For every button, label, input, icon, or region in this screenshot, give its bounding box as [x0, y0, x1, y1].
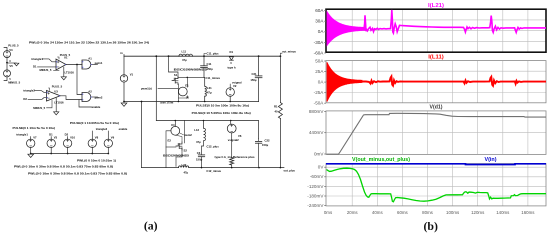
voltage source V6 vsignal2 [230, 121, 232, 125]
svg-text:0V: 0V [318, 165, 325, 170]
wire top rail [124, 55, 280, 57]
svg-text:enable: enable [92, 105, 101, 109]
wire comparator1 to A1 [66, 64, 82, 66]
svg-text:L22: L22 [182, 163, 187, 167]
svg-text:in: in [120, 51, 123, 55]
svg-text:pwm1: pwm1 [95, 61, 103, 65]
voltage source V1 [120, 75, 127, 82]
capacitor C11 [203, 56, 205, 65]
svg-text:150p: 150p [207, 67, 214, 71]
svg-text:D2: D2 [23, 97, 27, 101]
svg-text:LT1016: LT1016 [54, 100, 64, 104]
svg-text:150µ: 150µ [262, 143, 269, 147]
svg-text:LT1016: LT1016 [65, 70, 75, 74]
voltage source V8 [91, 131, 93, 139]
node pwm2 [92, 96, 98, 98]
svg-text:A2: A2 [88, 90, 92, 94]
svg-text:D1: D1 [230, 50, 234, 54]
svg-text:triangle2: triangle2 [96, 127, 108, 131]
wire bottom rail 2 [142, 167, 179, 169]
wire mid rail y120.5 [156, 121, 258, 139]
svg-text:-240mV: -240mV [307, 203, 324, 208]
svg-text:PULSE(0 10 5.005m 100n 100n 8u: PULSE(0 10 5.005m 100n 100n 8u 16u) [192, 111, 251, 115]
svg-text:C12_plus: C12_plus [207, 145, 220, 149]
svg-text:47µ: 47µ [182, 58, 187, 62]
node PLUS_5 [4, 48, 7, 51]
svg-text:V10: V10 [70, 136, 75, 140]
svg-text:PWL(0 0 10m 0 30m 0.8 50m 0.8: PWL(0 0 10m 0 30m 0.8 50m 0.8 50.1m 0.83… [28, 171, 127, 175]
voltage source V4 [4, 51, 11, 58]
behavioral source E2 pwm2 [203, 120, 205, 122]
svg-text:S1: S1 [174, 73, 178, 77]
svg-text:C21: C21 [251, 72, 257, 76]
svg-text:C11_plus: C11_plus [207, 52, 220, 56]
voltage source V9 [107, 131, 109, 139]
svg-text:-50A: -50A [314, 101, 325, 106]
voltage source V5 [4, 70, 11, 77]
svg-text:V1: V1 [130, 72, 134, 76]
inductor L22 [176, 148, 182, 167]
svg-text:30A: 30A [315, 19, 324, 24]
svg-text:E2: E2 [168, 139, 172, 143]
svg-text:100ms: 100ms [446, 210, 460, 215]
svg-text:440mV: 440mV [309, 130, 324, 135]
ground under V1 [121, 103, 127, 106]
wire drain to C11_minus [178, 76, 204, 78]
svg-text:MINUS_5: MINUS_5 [33, 106, 45, 110]
resistor R2 [231, 133, 233, 158]
wire junction to A2 [76, 64, 78, 66]
V(in) blue trace [326, 163, 546, 166]
inductor L12 [203, 121, 205, 129]
svg-text:V8: V8 [95, 136, 99, 140]
svg-text:triangle1: triangle1 [31, 57, 43, 61]
svg-text:V3: V3 [54, 136, 58, 140]
svg-text:50A: 50A [315, 58, 324, 63]
svg-text:D1: D1 [49, 133, 53, 137]
svg-text:-120mV: -120mV [307, 184, 324, 189]
voltage source V7 [30, 137, 32, 140]
svg-text:L11: L11 [182, 50, 187, 54]
svg-text:140ms: 140ms [496, 210, 510, 215]
svg-text:L21: L21 [207, 86, 212, 90]
svg-text:S2: S2 [184, 149, 188, 153]
svg-text:U4: U4 [171, 123, 175, 127]
svg-text:C3: C3 [197, 151, 201, 155]
plot panel 4 V(out) V(in) [307, 157, 546, 208]
svg-text:V4: V4 [9, 48, 13, 52]
svg-text:PULSE(0 1 10.005m 5u 5u 0 10u): PULSE(0 1 10.005m 5u 5u 0 10u) [70, 121, 119, 125]
svg-text:47µ: 47µ [196, 140, 201, 144]
svg-text:(b): (b) [423, 219, 437, 233]
svg-text:0mV: 0mV [314, 151, 324, 156]
svg-text:PWL(0 0 10m 0 10.01m 1): PWL(0 0 10m 0 10.01m 1) [77, 159, 116, 163]
svg-text:vsignal2: vsignal2 [228, 138, 239, 142]
node MINUS_5 [4, 77, 7, 81]
svg-text:C11: C11 [207, 62, 212, 66]
svg-text:160ms: 160ms [521, 210, 535, 215]
ground under U1 [63, 67, 65, 77]
svg-text:C11_minus: C11_minus [206, 76, 221, 80]
svg-text:D2: D2 [65, 133, 69, 137]
node pwm1 [92, 64, 98, 66]
svg-text:150µ: 150µ [250, 78, 257, 82]
svg-text:out_minus: out_minus [282, 50, 296, 54]
svg-text:triangle1: triangle1 [16, 133, 28, 137]
wire bottom rail [124, 101, 259, 103]
svg-text:pwm1(r): pwm1(r) [141, 87, 152, 91]
svg-text:80ms: 80ms [422, 210, 434, 215]
svg-text:40ms: 40ms [372, 210, 384, 215]
node C11_plus [203, 55, 205, 57]
inductor L21 [204, 77, 206, 86]
capacitor C12 [198, 154, 204, 156]
wire V1 to ground [123, 82, 125, 101]
op-amp U3 LT1016 [47, 91, 61, 102]
svg-text:.tran 175m: .tran 175m [160, 101, 174, 105]
wire rail x156 [155, 56, 157, 120]
and-gate A1 [82, 60, 91, 69]
svg-text:880mV: 880mV [309, 109, 324, 114]
svg-text:47µ: 47µ [207, 90, 212, 94]
svg-text:type h: type h [228, 65, 236, 69]
svg-text:0ms: 0ms [324, 210, 333, 215]
svg-text:PULSE(0 10 5m 100n 100n 8u 16u: PULSE(0 10 5m 100n 100n 8u 16u) [196, 103, 249, 107]
V(out) green trace [327, 168, 547, 202]
svg-text:R1: R1 [274, 104, 278, 108]
svg-text:I(L21): I(L21) [428, 3, 444, 9]
svg-text:0A: 0A [318, 29, 325, 34]
svg-text:V(d1): V(d1) [430, 105, 443, 111]
transistor S2 BSC026N08NS5 [176, 142, 182, 150]
svg-text:PLUS_5: PLUS_5 [8, 43, 19, 47]
capacitor C22 [258, 138, 260, 141]
plot panel 2 I(L11) [314, 55, 546, 106]
svg-text:V5: V5 [9, 64, 13, 68]
ground [28, 154, 34, 157]
and-gate A2 [82, 93, 91, 102]
wire [6, 58, 8, 70]
node out_minus [280, 55, 282, 57]
svg-text:PULSE(0 1 10m 5u 5u 0 10u): PULSE(0 1 10m 5u 5u 0 10u) [13, 126, 56, 130]
svg-text:-180mV: -180mV [307, 193, 324, 198]
wire rail x141 [141, 102, 143, 168]
op-amp U1 LT1016 [56, 59, 66, 70]
svg-text:V9: V9 [111, 136, 115, 140]
svg-text:PWL(0 0 10u 24 110m 24 110.1m: PWL(0 0 10u 24 110m 24 110.1m 22 130m 22… [29, 40, 149, 44]
capacitor C21 [258, 55, 260, 57]
svg-text:enable: enable [119, 127, 128, 131]
svg-text:60ms: 60ms [397, 210, 409, 215]
svg-text:60A: 60A [315, 8, 324, 13]
svg-text:L12: L12 [194, 128, 199, 132]
node 3 [6, 62, 8, 64]
svg-text:V(in): V(in) [485, 157, 497, 163]
svg-text:V7: V7 [33, 136, 37, 140]
ground bus wire [31, 153, 109, 155]
svg-text:-60A: -60A [314, 50, 325, 55]
plot panel 3 V(d1) [309, 105, 546, 157]
svg-text:-30A: -30A [314, 40, 325, 45]
wire comparator2 to A2 [60, 96, 82, 100]
voltage source V10 [67, 137, 69, 140]
node enable wire [79, 100, 92, 107]
svg-text:vsignal: vsignal [232, 80, 242, 84]
svg-text:47µ: 47µ [184, 170, 189, 174]
svg-text:-25A: -25A [314, 90, 325, 95]
svg-text:40: 40 [274, 109, 278, 113]
svg-text:A1: A1 [88, 56, 92, 60]
svg-text:MINUS_5: MINUS_5 [8, 81, 20, 85]
inductor L11 [169, 55, 179, 57]
svg-text:BSC026N08NS5: BSC026N08NS5 [174, 68, 208, 72]
x axis time labels [324, 210, 535, 215]
node C12_plus [202, 141, 204, 155]
ground [7, 62, 17, 64]
svg-text:PLUS_5: PLUS_5 [60, 53, 71, 57]
svg-text:PWL(0 0 10m 0 30m 0.8 50m 0.8: PWL(0 0 10m 0 30m 0.8 50m 0.8 50.1m 0.83… [14, 164, 113, 168]
voltage source V3 [50, 137, 52, 140]
svg-text:D1: D1 [33, 65, 37, 69]
svg-text:C22: C22 [265, 139, 271, 143]
svg-text:C12_minus: C12_minus [206, 169, 221, 173]
svg-text:PLUS_5: PLUS_5 [52, 84, 63, 88]
svg-text:V(out_minus,out_plus): V(out_minus,out_plus) [352, 157, 410, 163]
svg-text:I(L11): I(L11) [428, 55, 444, 61]
svg-text:U3: U3 [54, 90, 58, 94]
svg-text:20ms: 20ms [347, 210, 359, 215]
svg-text:150p: 150p [196, 157, 203, 161]
plot panel 1 I(L21) [314, 3, 546, 56]
svg-text:V2: V2 [233, 84, 237, 88]
svg-text:V6: V6 [238, 134, 242, 138]
ground under U3 [55, 98, 57, 112]
svg-text:0A: 0A [318, 80, 325, 85]
svg-text:25A: 25A [315, 69, 324, 74]
svg-text:pwm2: pwm2 [184, 133, 192, 137]
svg-text:120ms: 120ms [471, 210, 485, 215]
svg-text:pwm2: pwm2 [95, 96, 103, 100]
svg-text:MINUS_5: MINUS_5 [40, 68, 52, 72]
svg-text:-60mV: -60mV [310, 174, 324, 179]
resistor R1 [279, 56, 281, 102]
svg-text:type h k_ins Reference plus: type h k_ins Reference plus [215, 155, 256, 159]
svg-text:(a): (a) [144, 219, 158, 233]
svg-text:out_plus: out_plus [284, 168, 296, 172]
svg-text:triangle2: triangle2 [23, 88, 35, 92]
